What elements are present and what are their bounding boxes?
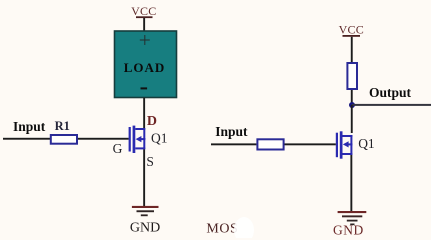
svg-text:S: S: [146, 154, 154, 169]
svg-text:VCC: VCC: [339, 22, 364, 36]
power symbol VCC bar (right): [343, 35, 361, 37]
minus terminal mark: [141, 87, 148, 89]
svg-text:MOS: MOS: [206, 222, 238, 237]
wire resistor to node (right): [351, 90, 353, 105]
wire R1 to gate (left): [78, 138, 129, 140]
svg-text:Q1: Q1: [151, 131, 168, 146]
svg-text:Input: Input: [215, 124, 248, 139]
wire LOAD box to drain (left): [143, 98, 145, 129]
wire VCC to resistor (right): [351, 37, 353, 63]
ground symbol (left): [132, 206, 159, 216]
resistor R1: [51, 135, 77, 144]
ground symbol (right): [338, 211, 367, 225]
transistor Q1 (right NMOS): [336, 131, 353, 158]
wire resistor to gate (right): [285, 143, 336, 145]
plus terminal mark: [140, 35, 150, 45]
svg-text:Input: Input: [13, 119, 46, 134]
wire input lead (right): [211, 143, 256, 145]
svg-text:LOAD: LOAD: [124, 60, 166, 75]
wire source to ground (left): [143, 149, 145, 206]
wire source to ground (right): [350, 155, 352, 211]
svg-text:GND: GND: [130, 221, 160, 236]
load box LOAD: [115, 31, 177, 98]
artifact white patch: [234, 217, 254, 240]
svg-text:D: D: [147, 114, 157, 129]
svg-text:Q1: Q1: [358, 136, 375, 151]
svg-text:R1: R1: [55, 119, 70, 133]
wire output (right): [352, 104, 431, 106]
svg-text:Output: Output: [369, 85, 412, 100]
svg-text:VCC: VCC: [131, 4, 156, 18]
wire node to drain (right): [351, 105, 353, 133]
wire VCC to LOAD box (left): [143, 18, 145, 32]
power symbol VCC bar (left): [136, 16, 153, 18]
svg-text:GND: GND: [333, 223, 364, 238]
svg-text:G: G: [113, 141, 123, 156]
wire input lead (left): [3, 138, 50, 140]
resistor (right, pull-up): [347, 63, 357, 89]
node output junction dot: [349, 102, 355, 108]
resistor (right, gate series): [257, 139, 283, 149]
transistor Q1 (left NMOS): [129, 126, 146, 153]
